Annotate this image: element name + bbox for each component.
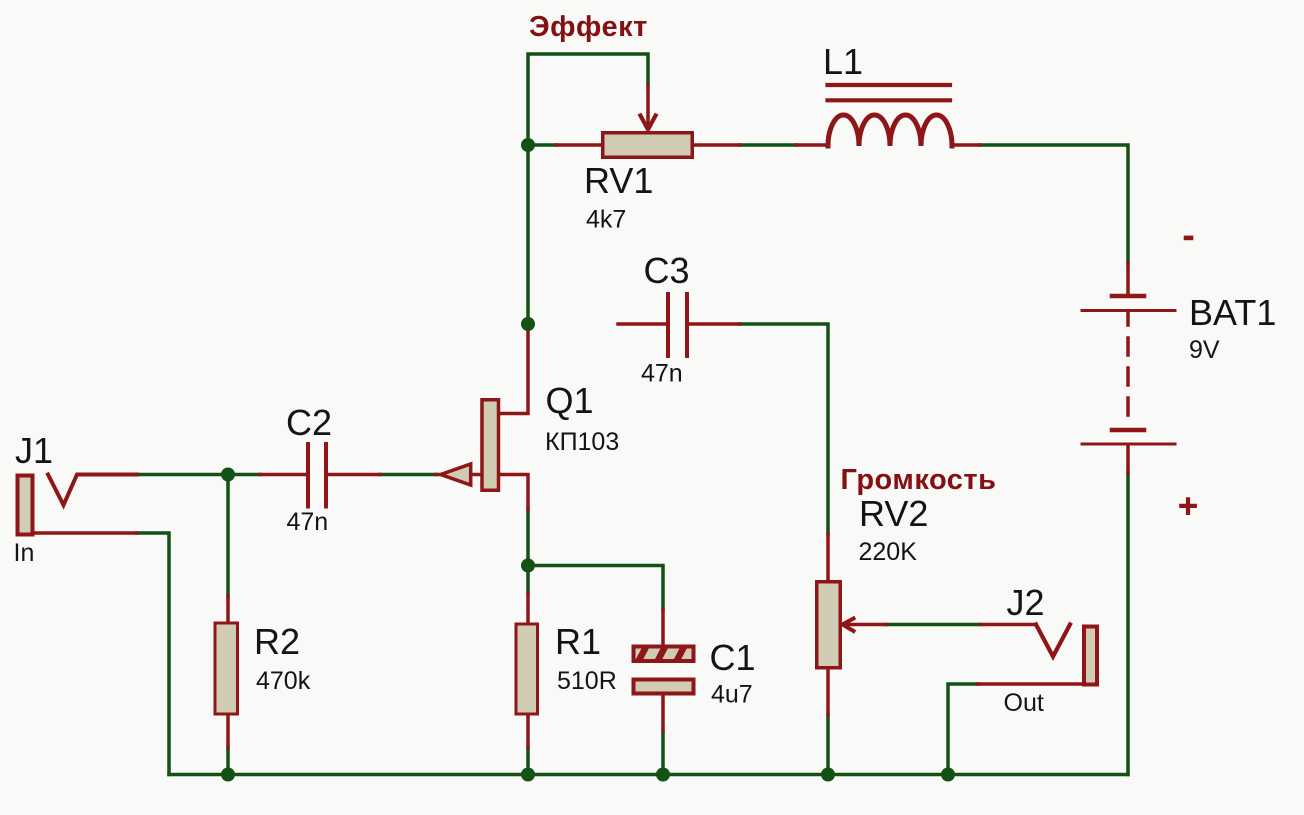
- wire: RV2 bottom green: [826, 715, 830, 775]
- junction node J1/C2 row: [221, 468, 235, 482]
- junction node rail C1: [656, 768, 670, 782]
- jack J1 tip contact: [48, 475, 137, 506]
- resistor R2 bottom pin: [226, 716, 230, 748]
- potentiometer RV2 wiper red stub: [981, 623, 1036, 627]
- battery BAT1 dashed middle: [1126, 338, 1130, 418]
- wire: bottom ground rail: [169, 773, 1128, 777]
- transistor Q1 body bar: [482, 400, 499, 491]
- battery BAT1 top long plate: [1082, 309, 1175, 312]
- svg-text:BAT1: BAT1: [1189, 292, 1276, 333]
- svg-text:R1: R1: [555, 621, 601, 662]
- inductor L1 pins: [796, 143, 980, 147]
- battery BAT1 inner stub top: [1126, 312, 1130, 325]
- svg-text:R2: R2: [254, 621, 300, 662]
- svg-text:9V: 9V: [1189, 336, 1220, 364]
- jack J1 body bar: [18, 476, 33, 535]
- svg-text:КП103: КП103: [545, 428, 619, 456]
- svg-text:47n: 47n: [641, 360, 683, 388]
- battery BAT1 bottom pin: [1126, 446, 1130, 473]
- capacitor C3 plates: [668, 294, 687, 356]
- wire: C1 bottom green: [661, 731, 665, 775]
- potentiometer RV2 wiper arrowhead: [843, 619, 854, 632]
- battery plus sign: [1181, 499, 1195, 513]
- svg-text:220K: 220K: [859, 538, 918, 566]
- capacitor C1 hatched positive plate: [634, 643, 706, 666]
- transistor Q1 gate arrow: [441, 464, 471, 485]
- capacitor C2 left pin: [260, 473, 306, 477]
- svg-text:Эффект: Эффект: [529, 11, 648, 43]
- svg-text:J1: J1: [15, 430, 53, 471]
- resistor R1 body: [516, 624, 538, 714]
- svg-text:4k7: 4k7: [586, 206, 626, 234]
- wire: Effect loop top: [528, 54, 648, 145]
- svg-text:L1: L1: [823, 41, 863, 82]
- junction node C3 row: [521, 317, 535, 331]
- svg-text:RV1: RV1: [584, 160, 653, 201]
- svg-text:4u7: 4u7: [711, 681, 753, 709]
- svg-text:RV2: RV2: [859, 493, 928, 534]
- wire: source junction to C1: [528, 566, 663, 611]
- jack J2 sleeve wire: [978, 682, 1083, 686]
- capacitor C1 top pin: [661, 610, 665, 645]
- wire: RV1 right to L1: [740, 143, 796, 147]
- capacitor C1 bottom pin: [661, 696, 665, 731]
- resistor R1 bottom pin: [526, 716, 530, 748]
- potentiometer RV1 wiper arrowhead: [640, 116, 655, 130]
- wire: R2 top green: [226, 475, 230, 597]
- wire: R2 bottom green: [226, 748, 230, 775]
- transistor Q1 source wire: [500, 475, 528, 510]
- potentiometer RV1 body: [603, 133, 693, 158]
- svg-text:C2: C2: [286, 402, 332, 443]
- wire: J1 tip row green: [137, 473, 260, 477]
- potentiometer RV2 body: [817, 582, 841, 668]
- junction node rail R2: [221, 768, 235, 782]
- svg-text:Q1: Q1: [546, 380, 594, 421]
- wire: vertical net x=528 from top junction to C3 junction: [526, 145, 530, 324]
- junction node top rail: [521, 138, 535, 152]
- inductor L1 coil: [828, 115, 952, 146]
- transistor Q1 gate wire red stub: [436, 473, 441, 477]
- wire: J1 sleeve green down: [137, 533, 169, 775]
- svg-text:Out: Out: [1004, 689, 1044, 717]
- potentiometer RV2 bottom pin: [826, 670, 830, 716]
- resistor R2 body: [215, 623, 238, 714]
- wire: C2 right green: [380, 473, 436, 477]
- wire: Q1 source down green: [526, 509, 530, 566]
- svg-text:C3: C3: [644, 250, 690, 291]
- transistor Q1 gate to bar: [471, 473, 481, 477]
- junction node rail R1: [521, 768, 535, 782]
- wire: RV2 wiper green: [886, 623, 981, 627]
- potentiometer RV1 pins: [556, 143, 740, 147]
- wire: battery bottom to ground rail: [1126, 473, 1130, 775]
- wire: L1 to battery top corner: [980, 145, 1128, 263]
- capacitor C1 bottom plate: [634, 680, 694, 694]
- wire: R1 top green: [526, 566, 530, 594]
- capacitor C3 right pin: [689, 322, 740, 326]
- potentiometer RV1 wiper arrow stem: [646, 85, 650, 128]
- potentiometer RV2 top pin: [826, 534, 830, 580]
- battery BAT1 bottom long plate: [1082, 443, 1175, 446]
- wire: R1 bottom green: [526, 748, 530, 775]
- wire: RV1 left green stub: [528, 143, 556, 147]
- transistor Q1 drain wire: [500, 324, 528, 414]
- battery minus sign: [1184, 236, 1194, 241]
- resistor R2 top pin: [226, 596, 230, 622]
- resistor R1 top pin: [526, 593, 530, 623]
- junction node rail J2: [941, 768, 955, 782]
- junction node rail RV2: [821, 768, 835, 782]
- svg-text:Громкость: Громкость: [841, 464, 997, 496]
- capacitor C3 left pin: [618, 322, 666, 326]
- battery BAT1 bottom short plate: [1112, 428, 1144, 433]
- battery BAT1 top pin: [1126, 263, 1130, 294]
- capacitor C2 right pin: [328, 473, 380, 477]
- capacitor C2 plates: [308, 444, 326, 507]
- svg-text:In: In: [14, 539, 35, 567]
- jack J2 body bar: [1084, 627, 1097, 685]
- inductor L1 core lines: [828, 85, 951, 100]
- wire: J2 sleeve green down: [948, 684, 978, 775]
- wire: C3 right to RV2 top: [740, 324, 828, 534]
- svg-text:47n: 47n: [287, 508, 329, 536]
- svg-text:J2: J2: [1007, 582, 1045, 623]
- svg-text:470k: 470k: [256, 667, 311, 695]
- svg-text:C1: C1: [710, 637, 756, 678]
- jack J2 tip contact: [1036, 625, 1070, 657]
- jack J1 sleeve wire: [34, 531, 137, 535]
- battery BAT1 top short plate: [1112, 294, 1144, 299]
- junction node source row: [521, 559, 535, 573]
- svg-text:510R: 510R: [557, 667, 617, 695]
